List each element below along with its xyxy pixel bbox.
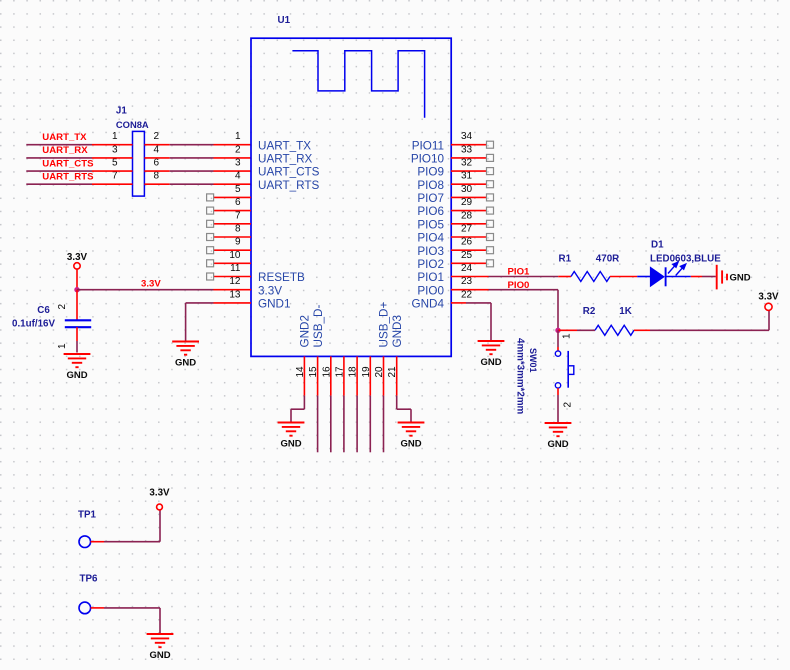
- svg-text:2: 2: [57, 304, 68, 310]
- C6 value label 0.1uf/16V: [12, 318, 55, 329]
- wire net UART_TX (J1 to U1 pin 1): [144, 144, 251, 146]
- U1 pin name PIO6: [417, 205, 444, 218]
- U1 pin 21 stub: [396, 356, 398, 395]
- svg-text:LED0603,BLUE: LED0603,BLUE: [650, 254, 721, 265]
- U1 pin number 5: [235, 184, 241, 195]
- net label UART_CTS: [42, 158, 94, 169]
- svg-text:GND: GND: [280, 438, 301, 449]
- U1 pin 30 stub (no connect): [451, 194, 494, 201]
- wire net UART_RX (left of J1): [26, 157, 132, 159]
- svg-text:PIO3: PIO3: [417, 245, 444, 258]
- ground symbol under pin 14: [278, 423, 305, 450]
- ground symbol GND1: [172, 342, 199, 369]
- svg-text:UART_RTS: UART_RTS: [258, 179, 319, 192]
- U1 pin number 11: [230, 263, 241, 274]
- svg-text:12: 12: [229, 276, 241, 287]
- wire net UART_RTS (J1 to U1 pin 4): [144, 183, 251, 185]
- svg-text:GND: GND: [175, 357, 196, 368]
- wire net UART_TX (left of J1): [26, 144, 132, 146]
- svg-text:GND4: GND4: [412, 298, 445, 311]
- svg-text:19: 19: [361, 366, 372, 378]
- U1 pin number 14: [295, 366, 306, 378]
- U1 pin name UART_RX: [258, 153, 313, 166]
- svg-text:PIO0: PIO0: [508, 280, 530, 291]
- SW01 designator label (rotated): [528, 348, 538, 373]
- J1 pin number 2: [154, 131, 160, 142]
- U1 pin name PIO9: [417, 166, 444, 179]
- svg-text:3: 3: [235, 158, 241, 169]
- svg-text:3.3V: 3.3V: [758, 292, 779, 303]
- svg-text:USB_D-: USB_D-: [312, 305, 325, 348]
- resistor R1: [571, 272, 610, 282]
- U1 pin 15 stub: [317, 356, 319, 395]
- svg-text:15: 15: [308, 366, 319, 378]
- ground symbol at D1 (rotated): [717, 265, 751, 290]
- wire net UART_CTS (left of J1): [26, 170, 132, 172]
- svg-text:27: 27: [461, 224, 473, 235]
- J1 pin number 6: [154, 158, 160, 169]
- U1 pin number 33: [461, 144, 473, 155]
- U1 pin name RESETB: [258, 271, 305, 284]
- R2 designator label: [583, 306, 596, 317]
- U1 pin number 24: [461, 263, 473, 274]
- svg-text:3.3V: 3.3V: [67, 252, 88, 263]
- svg-text:UART_RTS: UART_RTS: [42, 171, 94, 182]
- wire from U1 pin 16: [330, 396, 332, 453]
- U1 pin 9 stub (no connect): [207, 247, 251, 254]
- svg-text:C6: C6: [37, 305, 50, 316]
- svg-text:PIO8: PIO8: [417, 179, 444, 192]
- net label UART_RX: [42, 145, 88, 156]
- switch SW01: [555, 351, 574, 388]
- wire D1 to ground: [691, 276, 716, 278]
- svg-text:17: 17: [334, 366, 345, 378]
- U1 pin 25 stub (no connect): [451, 260, 494, 267]
- U1 pin number 10: [229, 250, 241, 261]
- TP1 designator label: [78, 510, 97, 521]
- resistor R2: [595, 325, 634, 335]
- wire switch pin 2 to ground: [557, 388, 559, 422]
- svg-text:PIO1: PIO1: [417, 271, 444, 284]
- U1 pin 27 stub (no connect): [451, 234, 494, 241]
- svg-text:20: 20: [374, 366, 385, 378]
- U1 pin number 3: [235, 158, 241, 169]
- wire 3.3V port to junction: [76, 269, 78, 290]
- wire from U1 pin 17: [343, 396, 345, 453]
- svg-text:6: 6: [235, 197, 241, 208]
- svg-text:UART_TX: UART_TX: [258, 139, 311, 152]
- svg-text:4mm*3mm*2mm: 4mm*3mm*2mm: [514, 338, 525, 415]
- svg-text:GND: GND: [480, 357, 501, 368]
- wire junction to R2: [558, 329, 595, 331]
- U1 pin number 2: [235, 144, 241, 155]
- U1 pin name GND3: [391, 315, 404, 347]
- test point TP6: [79, 602, 91, 614]
- U1 pin name USB_D-: [312, 305, 325, 348]
- svg-text:GND2: GND2: [299, 315, 312, 347]
- U1 designator label: [278, 15, 291, 26]
- wire net UART_CTS (J1 to U1 pin 3): [144, 170, 251, 172]
- net label UART_RTS: [42, 171, 94, 182]
- net label UART_TX: [42, 132, 87, 143]
- svg-text:PIO11: PIO11: [412, 139, 444, 152]
- D1 value label LED0603,BLUE: [650, 254, 721, 265]
- U1 pin number 21: [387, 366, 398, 378]
- svg-text:32: 32: [461, 158, 473, 169]
- svg-text:GND: GND: [730, 273, 751, 284]
- svg-text:25: 25: [461, 250, 473, 261]
- U1 pin 28 stub (no connect): [451, 220, 494, 227]
- svg-text:8: 8: [154, 171, 160, 182]
- U1 pin 6 stub (no connect): [207, 207, 251, 214]
- U1 pin 31 stub (no connect): [451, 181, 494, 188]
- U1 pin name UART_TX: [258, 139, 311, 152]
- U1 pin number 8: [235, 224, 241, 235]
- J1 pin number 8: [154, 171, 160, 182]
- wire net UART_RX (J1 to U1 pin 2): [144, 157, 251, 159]
- svg-text:28: 28: [461, 210, 473, 221]
- U1 pin number 19: [361, 366, 372, 378]
- svg-text:21: 21: [387, 366, 398, 378]
- svg-text:33: 33: [461, 144, 473, 155]
- U1 pin number 4: [235, 171, 241, 182]
- wire TP1 to 3.3V port: [91, 510, 160, 542]
- J1 pin number 4: [154, 144, 160, 155]
- svg-text:GND: GND: [400, 438, 421, 449]
- U1 pin number 23: [461, 276, 473, 287]
- svg-text:PIO0: PIO0: [417, 284, 444, 297]
- U1 pin 16 stub: [330, 356, 332, 395]
- svg-text:PIO4: PIO4: [417, 232, 444, 245]
- svg-text:13: 13: [229, 289, 241, 300]
- U1 pin name PIO2: [417, 258, 444, 271]
- svg-text:UART_TX: UART_TX: [42, 132, 87, 143]
- svg-text:3.3V: 3.3V: [149, 488, 170, 499]
- wire R2 to 3.3V port: [634, 310, 769, 330]
- U1 pin name PIO10: [411, 153, 445, 166]
- U1 pin 34 stub (no connect): [451, 141, 494, 148]
- J1 designator label: [116, 106, 127, 117]
- svg-text:11: 11: [230, 263, 241, 274]
- U1 pin 29 stub (no connect): [451, 207, 494, 214]
- U1 pin 26 stub (no connect): [451, 247, 494, 254]
- wire from U1 pin 18: [356, 396, 358, 453]
- svg-text:18: 18: [348, 366, 359, 378]
- R1 value label 470R: [596, 254, 619, 265]
- R1 designator label: [559, 254, 572, 265]
- U1 pin 14 stub: [303, 356, 305, 395]
- U1 pin name PIO11: [412, 139, 444, 152]
- U1 pin 10 stub (no connect): [207, 260, 251, 267]
- power port 3.3V (right): [758, 292, 779, 311]
- connector J1 (CON8A): [133, 131, 145, 196]
- op-amp/IC U1 body: [251, 38, 451, 356]
- svg-text:TP6: TP6: [80, 574, 99, 585]
- svg-text:7: 7: [235, 210, 241, 221]
- svg-text:5: 5: [112, 158, 118, 169]
- U1 pin name GND1: [258, 298, 290, 311]
- svg-text:2: 2: [154, 131, 160, 142]
- U1 pin name PIO3: [417, 245, 444, 258]
- U1 pin name PIO4: [417, 232, 444, 245]
- wire TP6 to ground: [91, 608, 160, 633]
- wire net 3.3V to U1 pin 12: [77, 289, 251, 291]
- U1 pin number 32: [461, 158, 473, 169]
- wire U1 pin 22 GND4: [451, 303, 491, 340]
- svg-text:10: 10: [229, 250, 241, 261]
- U1 pin name PIO5: [417, 218, 444, 231]
- svg-text:GND: GND: [149, 650, 170, 661]
- J1 pin number 7: [112, 171, 118, 182]
- U1 pin name UART_RTS: [258, 179, 319, 192]
- U1 pin name PIO0: [417, 284, 444, 297]
- D1 designator label: [651, 239, 664, 250]
- U1 pin name PIO7: [417, 192, 444, 205]
- power port 3.3V (TP1): [149, 488, 170, 510]
- svg-text:UART_CTS: UART_CTS: [258, 166, 320, 179]
- U1 pin name UART_CTS: [258, 166, 320, 179]
- U1 pin number 17: [334, 366, 345, 378]
- C6 pin number 1: [57, 343, 68, 349]
- svg-text:PIO7: PIO7: [417, 192, 444, 205]
- U1 pin 19 stub: [369, 356, 371, 395]
- U1 pin 18 stub: [356, 356, 358, 395]
- svg-text:3: 3: [112, 144, 118, 155]
- U1 pin number 34: [461, 131, 473, 142]
- svg-text:1: 1: [112, 131, 118, 142]
- U1 pin name 3.3V: [258, 284, 282, 297]
- svg-text:USB_D+: USB_D+: [378, 302, 391, 348]
- ground symbol under TP6: [147, 634, 174, 661]
- svg-text:3.3V: 3.3V: [258, 284, 282, 297]
- svg-text:SW01: SW01: [528, 348, 538, 373]
- svg-text:0.1uf/16V: 0.1uf/16V: [12, 318, 55, 329]
- svg-text:30: 30: [461, 184, 473, 195]
- junction node (PIO0/R2/SW): [555, 328, 560, 333]
- U1 pin number 7: [235, 210, 241, 221]
- U1 pin name USB_D+: [378, 302, 391, 348]
- svg-text:CON8A: CON8A: [116, 119, 149, 130]
- net label PIO0: [508, 280, 530, 291]
- U1 pin 17 stub: [343, 356, 345, 395]
- U1 pin number 20: [374, 366, 385, 378]
- svg-text:31: 31: [461, 171, 473, 182]
- svg-text:GND: GND: [66, 370, 87, 381]
- svg-text:2: 2: [235, 144, 241, 155]
- svg-text:UART_CTS: UART_CTS: [42, 158, 94, 169]
- U1 pin number 29: [461, 197, 473, 208]
- U1 pin name GND2: [299, 315, 312, 347]
- C6 pin number 2: [57, 304, 68, 310]
- svg-text:34: 34: [461, 131, 473, 142]
- svg-text:4: 4: [154, 144, 160, 155]
- svg-text:UART_RX: UART_RX: [258, 153, 313, 166]
- test point TP1: [79, 536, 91, 548]
- U1 pin 32 stub (no connect): [451, 168, 494, 175]
- SW01 value label 4mm*3mm*2mm (rotated): [514, 338, 525, 415]
- svg-text:23: 23: [461, 276, 473, 287]
- svg-text:29: 29: [461, 197, 473, 208]
- svg-text:GND3: GND3: [391, 315, 404, 347]
- TP6 designator label: [80, 574, 99, 585]
- switch pin number 2: [563, 402, 574, 408]
- svg-text:PIO6: PIO6: [417, 205, 444, 218]
- wire R1 to D1: [610, 276, 637, 278]
- svg-text:7: 7: [112, 171, 118, 182]
- U1 pin name PIO8: [417, 179, 444, 192]
- wire U1 pin 21 to ground: [397, 396, 411, 422]
- svg-text:24: 24: [461, 263, 473, 274]
- svg-text:R1: R1: [559, 254, 572, 265]
- wire U1 pin 13 GND1: [186, 303, 251, 341]
- wire from U1 pin 20: [383, 396, 385, 453]
- U1 pin number 18: [348, 366, 359, 378]
- U1 pin number 6: [235, 197, 241, 208]
- svg-text:PIO9: PIO9: [417, 166, 444, 179]
- svg-text:PIO10: PIO10: [411, 153, 445, 166]
- U1 pin number 15: [308, 366, 319, 378]
- U1 pin 11 stub (no connect): [207, 273, 251, 280]
- capacitor C6: [65, 290, 91, 353]
- U1 pin number 27: [461, 224, 473, 235]
- U1 pin 5 stub (no connect): [207, 194, 251, 201]
- ground symbol under pin 21: [398, 423, 425, 450]
- net label PIO1: [508, 267, 531, 278]
- wire junction to switch pin 1: [557, 330, 559, 351]
- svg-text:TP1: TP1: [78, 510, 97, 521]
- svg-text:R2: R2: [583, 306, 596, 317]
- U1 pin number 26: [461, 237, 473, 248]
- svg-text:RESETB: RESETB: [258, 271, 305, 284]
- junction node (3.3V/C6): [74, 287, 79, 292]
- U1 pin 20 stub: [383, 356, 385, 395]
- svg-text:14: 14: [295, 366, 306, 378]
- wire net PIO1 (U1 pin 24 to R1): [451, 276, 571, 278]
- svg-text:PIO2: PIO2: [417, 258, 444, 271]
- svg-text:470R: 470R: [596, 254, 619, 265]
- U1 pin number 31: [461, 171, 473, 182]
- LED D1: [637, 262, 691, 286]
- U1 pin 7 stub (no connect): [207, 220, 251, 227]
- U1 pin name PIO1: [417, 271, 444, 284]
- C6 designator label: [37, 305, 50, 316]
- svg-text:1: 1: [235, 131, 241, 142]
- svg-text:GND: GND: [547, 439, 568, 450]
- power port 3.3V (top left): [67, 252, 88, 269]
- svg-text:3.3V: 3.3V: [141, 278, 161, 289]
- ground symbol under switch: [545, 423, 572, 450]
- J1 pin number 1: [112, 131, 118, 142]
- U1 pin number 1: [235, 131, 241, 142]
- svg-text:2: 2: [563, 402, 574, 408]
- svg-text:8: 8: [235, 224, 241, 235]
- svg-text:9: 9: [235, 237, 241, 248]
- U1 pin number 30: [461, 184, 473, 195]
- svg-text:PIO5: PIO5: [417, 218, 444, 231]
- svg-text:6: 6: [154, 158, 160, 169]
- svg-text:UART_RX: UART_RX: [42, 145, 88, 156]
- wire net UART_RTS (left of J1): [26, 183, 132, 185]
- U1 pin number 25: [461, 250, 473, 261]
- svg-text:PIO1: PIO1: [508, 267, 531, 278]
- U1 pin number 9: [235, 237, 241, 248]
- svg-text:1K: 1K: [619, 306, 632, 317]
- svg-text:1: 1: [57, 343, 68, 349]
- U1 pin number 13: [229, 289, 241, 300]
- wire U1 pin 14 to ground: [291, 396, 304, 422]
- wire net PIO0 (U1 pin 23 down to junction): [451, 290, 558, 331]
- net label 3.3V: [141, 278, 161, 289]
- svg-text:22: 22: [461, 289, 473, 300]
- ground symbol GND4: [478, 341, 505, 368]
- svg-text:26: 26: [461, 237, 473, 248]
- J1 pin number 5: [112, 158, 118, 169]
- J1 pin number 3: [112, 144, 118, 155]
- U1 pin name GND4: [412, 298, 445, 311]
- U1 pin number 12: [229, 276, 241, 287]
- svg-text:J1: J1: [116, 106, 127, 117]
- switch pin number 1: [561, 333, 572, 339]
- svg-text:4: 4: [235, 171, 241, 182]
- antenna squiggle inside U1: [292, 51, 424, 118]
- wire from U1 pin 15: [317, 396, 319, 453]
- J1 value label CON8A: [116, 119, 149, 130]
- svg-text:5: 5: [235, 184, 241, 195]
- R2 value label 1K: [619, 306, 632, 317]
- svg-text:GND1: GND1: [258, 298, 290, 311]
- wire from U1 pin 19: [369, 396, 371, 453]
- U1 pin number 16: [321, 366, 332, 378]
- U1 pin number 22: [461, 289, 473, 300]
- svg-text:D1: D1: [651, 239, 664, 250]
- ground symbol under C6: [64, 354, 91, 381]
- U1 pin 8 stub (no connect): [207, 234, 251, 241]
- svg-text:U1: U1: [278, 15, 291, 26]
- U1 pin number 28: [461, 210, 473, 221]
- svg-text:1: 1: [561, 333, 572, 339]
- U1 pin 33 stub (no connect): [451, 154, 494, 161]
- svg-text:16: 16: [321, 366, 332, 378]
